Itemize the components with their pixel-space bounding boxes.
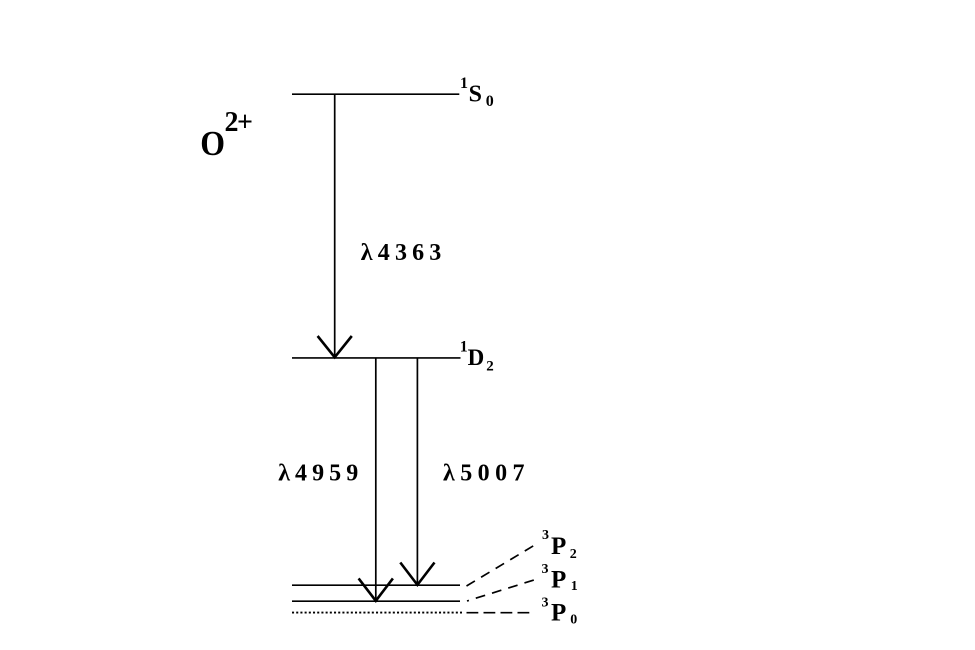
svg-text:P: P — [551, 533, 566, 560]
svg-text:S: S — [469, 82, 482, 108]
svg-text:D: D — [468, 345, 485, 370]
svg-text:λ4959: λ4959 — [278, 461, 358, 487]
svg-text:P: P — [551, 567, 566, 594]
transition arrow lambda4959 stem — [375, 358, 377, 600]
level 3P2 line — [292, 584, 460, 586]
transition arrow lambda4959 head — [359, 578, 393, 600]
svg-text:2: 2 — [570, 547, 577, 562]
level 3P0 dotted line — [292, 612, 462, 614]
dashed leader to 3P2 label — [467, 546, 534, 587]
dashed leader to 3P0 label — [467, 612, 535, 614]
svg-text:0: 0 — [486, 93, 494, 110]
svg-text:1: 1 — [460, 75, 468, 92]
level 1D2 line — [292, 357, 461, 359]
svg-text:λ4363: λ4363 — [361, 240, 442, 266]
label 3P1 — [542, 562, 578, 594]
label 1D2 — [460, 339, 494, 375]
transition arrow lambda4363 head — [318, 336, 352, 357]
label 3P2 — [542, 528, 577, 562]
svg-text:0: 0 — [570, 613, 577, 628]
svg-text:1: 1 — [571, 579, 578, 594]
svg-text:2: 2 — [486, 358, 494, 374]
svg-text:1: 1 — [460, 339, 468, 356]
svg-text:O: O — [200, 125, 225, 164]
transition arrow lambda5007 head — [400, 563, 434, 585]
transition arrow lambda5007 stem — [416, 358, 418, 584]
label 1S0 — [460, 75, 494, 110]
dashed leader to 3P1 label — [467, 580, 534, 601]
svg-text:3: 3 — [542, 596, 549, 611]
svg-text:2+: 2+ — [225, 107, 254, 138]
level 3P1 line — [292, 600, 460, 602]
svg-text:P: P — [551, 599, 566, 626]
svg-text:3: 3 — [542, 562, 549, 577]
ion label O2+ — [200, 107, 253, 163]
svg-text:3: 3 — [542, 528, 549, 543]
transition arrow lambda4363 stem — [334, 94, 336, 357]
level 1S0 line — [292, 93, 459, 95]
svg-text:λ5007: λ5007 — [443, 461, 525, 487]
label 3P0 — [542, 596, 578, 628]
